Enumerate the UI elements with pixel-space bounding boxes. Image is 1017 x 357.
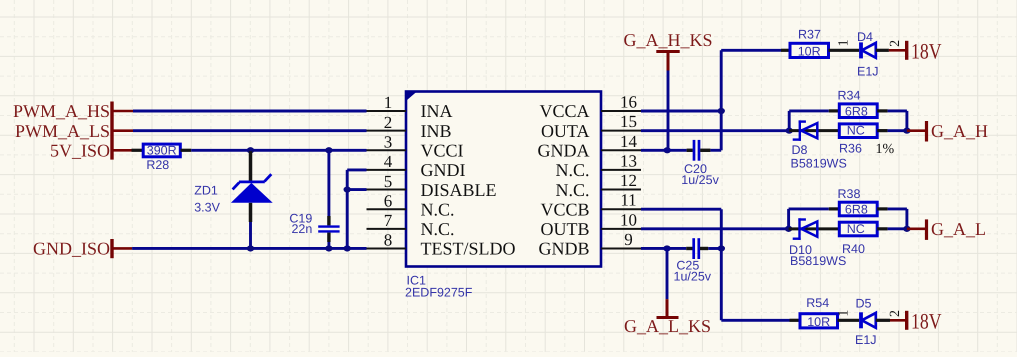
resistor R40 NC (839, 222, 907, 256)
wire OUTA to network (641, 129, 789, 132)
svg-text:11: 11 (620, 191, 636, 210)
svg-text:N.C.: N.C. (555, 160, 589, 180)
diode D5 E1J (855, 296, 890, 347)
pin number 1 of D4 (836, 39, 851, 46)
resistor R38 6R8 (829, 187, 888, 217)
svg-text:NC: NC (847, 222, 865, 236)
junction 5V-zener (247, 147, 254, 153)
svg-text:5: 5 (384, 172, 393, 191)
resistor R36 NC (839, 124, 907, 156)
port 5V_ISO (50, 140, 132, 160)
svg-text:NC: NC (847, 124, 865, 138)
junction DISABLE (344, 186, 351, 192)
svg-text:10R: 10R (807, 315, 830, 329)
diode D4 E1J (857, 30, 889, 78)
pin 13 N.C. (555, 151, 641, 180)
svg-text:PWM_A_LS: PWM_A_LS (15, 121, 110, 141)
svg-text:GNDB: GNDB (538, 239, 589, 259)
svg-text:B5819WS: B5819WS (790, 254, 846, 268)
svg-text:E1J: E1J (857, 64, 879, 78)
pin 16 VCCA (539, 93, 641, 122)
svg-text:6R8: 6R8 (845, 104, 868, 118)
svg-text:1%: 1% (876, 142, 895, 157)
svg-text:1u/25v: 1u/25v (674, 269, 712, 283)
svg-text:10: 10 (620, 210, 637, 229)
svg-text:GNDA: GNDA (538, 140, 590, 160)
port 18V top (889, 39, 942, 64)
svg-text:VCCB: VCCB (540, 199, 589, 219)
svg-text:5V_ISO: 5V_ISO (50, 140, 110, 160)
capacitor C19 22n (289, 151, 339, 248)
junction 5V-C19 (325, 147, 332, 153)
svg-text:18V: 18V (911, 308, 942, 333)
pin 15 OUTA (541, 112, 641, 141)
pin number 2 of D4 (888, 40, 903, 47)
pin 10 OUTB (541, 210, 642, 239)
svg-text:2: 2 (888, 40, 903, 47)
pin 3 VCCI (367, 132, 464, 160)
svg-text:6: 6 (384, 191, 393, 210)
wire R38 branch (789, 209, 829, 229)
junction GNDA tap (664, 147, 671, 153)
pin number 1 of D5 (836, 310, 851, 317)
svg-text:VCCI: VCCI (421, 140, 464, 160)
svg-text:22n: 22n (291, 222, 312, 236)
wire R38 to junction (888, 209, 907, 229)
resistor R54 10R (790, 296, 860, 329)
svg-text:1u/25v: 1u/25v (681, 173, 719, 187)
svg-text:N.C.: N.C. (555, 180, 589, 200)
svg-text:GND_ISO: GND_ISO (33, 239, 110, 259)
svg-text:2EDF9275F: 2EDF9275F (405, 286, 473, 300)
resistor R28 (132, 144, 192, 172)
resistor R37 10R (781, 28, 859, 59)
capacitor C20 1u/25v (641, 140, 721, 187)
svg-text:12: 12 (620, 171, 637, 190)
junction VCCA (718, 108, 725, 114)
pin 14 GNDA (538, 132, 642, 161)
pin 9 GNDB (538, 230, 641, 259)
junction GND-GNDI (344, 245, 351, 251)
schottky diode D8 B5819WS (789, 120, 847, 170)
pin number 2 of D5 (888, 310, 903, 317)
junction OUTB right (903, 226, 910, 232)
wire PWM_A_LS to pin2 (133, 129, 367, 132)
svg-text:ZD1: ZD1 (194, 184, 218, 198)
svg-text:VCCA: VCCA (539, 101, 589, 121)
svg-text:R36: R36 (839, 141, 862, 155)
svg-text:4: 4 (384, 152, 393, 171)
svg-text:G_A_H_KS: G_A_H_KS (623, 30, 712, 50)
value 2EDF9275F (405, 286, 473, 300)
zener diode ZD1 3.3V (194, 151, 273, 248)
pin 8 TEST/SLDO (367, 231, 516, 259)
designator IC1 (407, 274, 427, 288)
svg-text:INA: INA (421, 101, 453, 121)
svg-text:10R: 10R (798, 44, 821, 58)
svg-text:R38: R38 (838, 187, 861, 201)
svg-text:G_A_L_KS: G_A_L_KS (624, 316, 711, 336)
svg-text:OUTA: OUTA (541, 121, 590, 141)
svg-text:1: 1 (836, 310, 851, 317)
svg-text:R37: R37 (798, 28, 821, 42)
port PWM_A_LS (15, 121, 133, 141)
junction GND-zener (247, 245, 254, 251)
schottky diode D10 B5819WS (789, 218, 847, 268)
port 18V bottom (890, 308, 942, 333)
svg-text:R34: R34 (838, 89, 861, 103)
wire GND_ISO rail to pin8 (132, 247, 366, 250)
svg-text:3.3V: 3.3V (194, 200, 220, 214)
svg-text:7: 7 (384, 211, 393, 230)
svg-text:2: 2 (888, 310, 903, 317)
svg-text:13: 13 (620, 151, 637, 170)
svg-text:GNDI: GNDI (421, 160, 466, 180)
svg-text:18V: 18V (911, 39, 942, 64)
svg-text:TEST/SLDO: TEST/SLDO (421, 239, 516, 259)
wire R34 branch (789, 111, 829, 131)
port PWM_A_HS (13, 101, 133, 159)
wire 5V rail R28 to pin3 (191, 149, 366, 152)
pin 1 INA (367, 93, 453, 121)
wire GNDB to G_A_L_KS (666, 248, 669, 299)
resistor R34 6R8 (829, 89, 888, 119)
pin 2 INB (367, 113, 452, 141)
capacitor C25 1u/25v (641, 238, 721, 283)
svg-text:3: 3 (384, 132, 393, 151)
svg-text:6R8: 6R8 (845, 203, 868, 217)
wire G_A_H_KS to GNDA (667, 71, 670, 151)
pin 7 N.C. (367, 211, 455, 239)
svg-text:390R: 390R (147, 144, 177, 158)
svg-text:G_A_L: G_A_L (931, 219, 986, 239)
junction OUTA left (786, 128, 793, 134)
pin 4 GNDI (367, 152, 466, 180)
wire VCCA to bootstrap (641, 50, 781, 150)
wire R34 to junction (888, 111, 907, 131)
junction GND-C19 (325, 245, 332, 251)
wire OUTB to network (641, 227, 789, 230)
svg-text:INB: INB (421, 121, 452, 141)
wire VCCB down (641, 209, 790, 320)
svg-text:9: 9 (624, 230, 633, 249)
svg-text:G_A_H: G_A_H (931, 121, 988, 141)
svg-text:1: 1 (384, 93, 393, 112)
svg-text:8: 8 (384, 231, 393, 250)
pin 11 VCCB (540, 191, 641, 220)
pin 5 DISABLE (367, 172, 497, 200)
svg-text:OUTB: OUTB (541, 219, 590, 239)
port G_A_L (907, 219, 986, 240)
junction OUTA right (903, 128, 910, 134)
svg-text:D4: D4 (857, 30, 873, 44)
svg-text:B5819WS: B5819WS (791, 157, 847, 171)
op-amp IC1 body (2EDF9275F gate driver) (405, 91, 601, 267)
svg-text:R28: R28 (146, 158, 169, 172)
port GND_ISO (33, 239, 132, 259)
svg-text:E1J: E1J (855, 333, 877, 347)
svg-text:N.C.: N.C. (421, 199, 455, 219)
svg-text:14: 14 (620, 132, 638, 151)
junction OUTB left (785, 226, 792, 232)
svg-text:R40: R40 (842, 242, 865, 256)
junction GNDB tap (663, 245, 670, 251)
svg-text:1: 1 (836, 39, 851, 46)
pin 12 N.C. (555, 171, 641, 200)
port G_A_H (907, 121, 988, 142)
tolerance 1% (876, 142, 895, 157)
svg-text:16: 16 (620, 93, 637, 112)
port G_A_H_KS (623, 30, 712, 71)
junction VCCB-C25 (718, 245, 725, 251)
svg-text:DISABLE: DISABLE (421, 180, 497, 200)
svg-text:15: 15 (620, 112, 637, 131)
svg-text:N.C.: N.C. (421, 219, 455, 239)
svg-text:D5: D5 (856, 296, 872, 310)
port G_A_L_KS (624, 299, 711, 336)
svg-text:R54: R54 (806, 296, 829, 310)
pin 6 N.C. (367, 191, 455, 219)
svg-text:PWM_A_HS: PWM_A_HS (13, 101, 110, 121)
svg-text:D8: D8 (792, 143, 808, 157)
wire GNDI/DISABLE vertical (347, 170, 366, 249)
svg-text:2: 2 (384, 113, 393, 132)
wire PWM_A_HS to pin1 (133, 110, 367, 113)
